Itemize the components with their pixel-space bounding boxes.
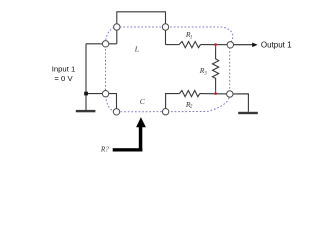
terminal node left-top: [102, 41, 108, 47]
output arrowhead: [252, 43, 257, 48]
resistor R3: [213, 48, 219, 90]
wire red stub top of R3: [215, 45, 217, 49]
junction dot R3 bottom (red): [214, 92, 217, 95]
wire: R2 to right node: [200, 93, 230, 95]
terminal node top-right: [162, 24, 168, 30]
wire: bottom mid elbow to R2: [166, 94, 180, 112]
wire: left vertical input rail: [85, 44, 87, 94]
svg-text:1: 1: [190, 35, 193, 40]
wire: R1 to output node: [201, 44, 231, 46]
terminal node left-bottom: [102, 91, 108, 97]
wire: bottom-left elbow: [86, 94, 117, 112]
svg-text:L: L: [134, 45, 139, 54]
terminal node right-bottom: [227, 91, 233, 97]
junction dot input: [84, 92, 88, 96]
junction dot R3 top (red): [214, 43, 217, 46]
svg-text:Input 1: Input 1: [52, 65, 76, 74]
R? pointer arrow: [113, 117, 146, 151]
wire: right node to ground: [230, 94, 249, 112]
ground right: [238, 112, 258, 114]
wire: left horizontal to node: [86, 43, 117, 45]
wire: R1 feed: [166, 44, 180, 46]
terminal node bottom-left: [113, 109, 119, 115]
terminal node output: [227, 42, 233, 48]
terminal node top-left: [114, 24, 120, 30]
svg-text:R?: R?: [100, 146, 109, 154]
ground left: [76, 110, 96, 112]
resistor R1: [179, 42, 200, 48]
wire red stub bottom of R3: [215, 90, 217, 93]
svg-text:Output 1: Output 1: [261, 41, 292, 50]
wire: top rail detour: [117, 12, 166, 45]
svg-text:= 0 V: = 0 V: [54, 74, 73, 83]
wire: ground stem left: [85, 94, 87, 110]
terminal node bottom-mid: [162, 109, 168, 115]
resistor R2: [179, 91, 199, 97]
wire: output lead: [230, 44, 252, 46]
dashed selection loop: [106, 27, 233, 112]
